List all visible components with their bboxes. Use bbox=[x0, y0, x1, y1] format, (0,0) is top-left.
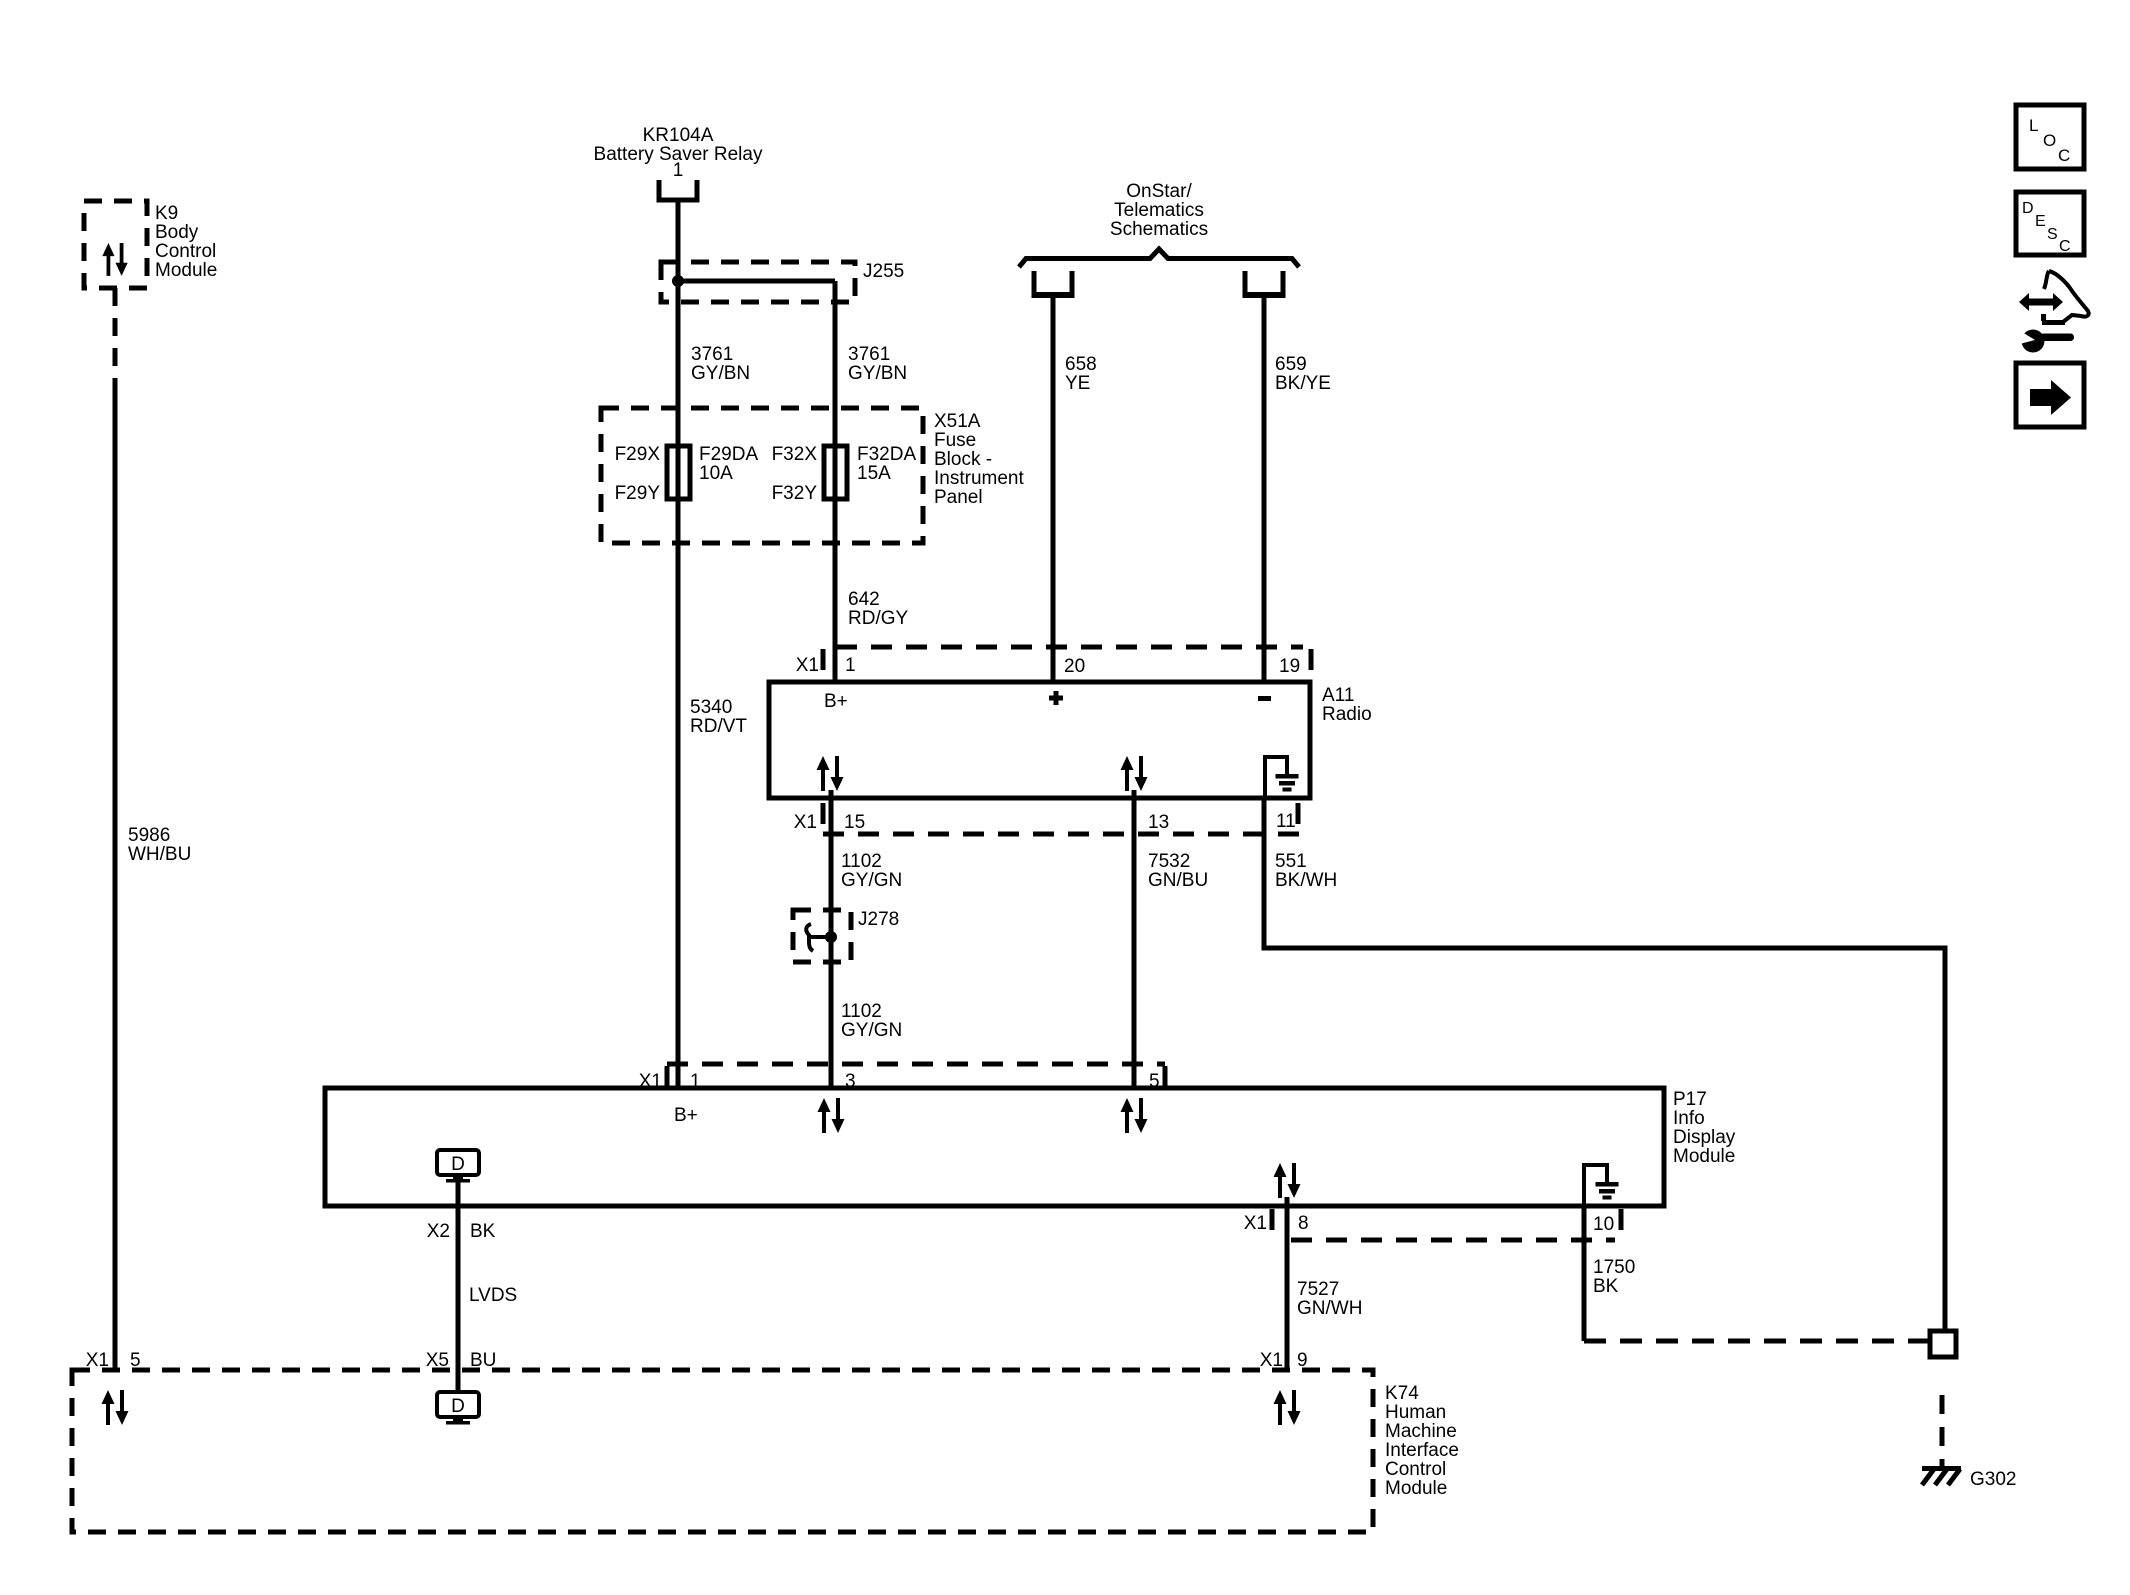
svg-text:WH/BU: WH/BU bbox=[128, 844, 191, 865]
wire 1102 GY/GN radio pin 15 to P17 pin 3 bbox=[831, 790, 902, 1088]
svg-text:1102: 1102 bbox=[841, 851, 882, 872]
fuse F29DA 10A bbox=[615, 444, 759, 504]
svg-text:13: 13 bbox=[1148, 812, 1169, 833]
svg-text:F32X: F32X bbox=[772, 444, 818, 465]
radio bidirectional arrows above pin 15 bbox=[817, 756, 844, 791]
svg-text:Radio: Radio bbox=[1322, 704, 1372, 725]
wire 642 RD/GY label bbox=[848, 589, 909, 629]
svg-text:B+: B+ bbox=[674, 1105, 698, 1126]
svg-text:Module: Module bbox=[1385, 1478, 1447, 1499]
svg-text:GY/BN: GY/BN bbox=[691, 363, 750, 384]
svg-text:658: 658 bbox=[1065, 354, 1097, 375]
P17 bidirectional arrows below pin 3 bbox=[818, 1098, 845, 1133]
svg-text:10A: 10A bbox=[699, 463, 733, 484]
svg-text:J278: J278 bbox=[858, 909, 899, 930]
svg-text:F29X: F29X bbox=[615, 444, 661, 465]
P17 display output D icon bbox=[437, 1150, 479, 1183]
nav icon schematic navigation (double arrow, outline, wrench) bbox=[2016, 271, 2089, 353]
svg-text:KR104A: KR104A bbox=[643, 125, 714, 146]
svg-text:5340: 5340 bbox=[690, 697, 732, 718]
svg-text:642: 642 bbox=[848, 589, 880, 610]
svg-text:F32DA: F32DA bbox=[857, 444, 916, 465]
svg-text:K74: K74 bbox=[1385, 1383, 1419, 1404]
svg-text:Info: Info bbox=[1673, 1108, 1705, 1129]
brace over OnStar wires bbox=[1019, 249, 1299, 267]
svg-text:BK/WH: BK/WH bbox=[1275, 870, 1337, 891]
svg-text:GN/BU: GN/BU bbox=[1148, 870, 1208, 891]
radio A11 connector X1 top strip bbox=[796, 647, 1311, 679]
wire 658 YE to radio pin 20 bbox=[1053, 295, 1097, 682]
svg-text:D: D bbox=[2022, 200, 2034, 217]
wire 5986 WH/BU from K9 to K74 bbox=[115, 288, 191, 1370]
module K74 Human Machine Interface Control Module (dashed box) bbox=[72, 1370, 1459, 1532]
svg-text:Control: Control bbox=[155, 241, 216, 262]
wire 551 BK/WH radio pin 11 to terminal bbox=[1264, 796, 1945, 1331]
OnStar/Telematics Schematics heading bbox=[1110, 181, 1208, 240]
nav icon LOC bbox=[2016, 105, 2084, 169]
svg-text:1: 1 bbox=[845, 655, 856, 676]
svg-text:Display: Display bbox=[1673, 1127, 1736, 1148]
P17 bidirectional arrows above pin 8 bbox=[1274, 1163, 1301, 1198]
svg-text:Instrument: Instrument bbox=[934, 468, 1024, 489]
wire 3761 GY/BN from relay down through fuse F29 to P17 pin 1 bbox=[678, 200, 750, 1088]
svg-text:BK: BK bbox=[470, 1221, 496, 1242]
wire 5340 RD/VT label bbox=[690, 697, 747, 737]
svg-text:OnStar/: OnStar/ bbox=[1126, 181, 1192, 202]
radio + terminal label bbox=[1049, 691, 1063, 705]
wire 1750 BK P17 pin 10 to terminal bbox=[1584, 1206, 1930, 1341]
svg-text:X2: X2 bbox=[427, 1221, 450, 1242]
svg-text:L: L bbox=[2029, 116, 2038, 135]
svg-text:11: 11 bbox=[1276, 811, 1296, 832]
wire 7532 GN/BU radio pin 13 to P17 pin 5 bbox=[1134, 790, 1208, 1088]
svg-text:C: C bbox=[2059, 238, 2071, 255]
svg-text:X1: X1 bbox=[796, 655, 819, 676]
fuse block X51A (dashed box) bbox=[601, 408, 1024, 543]
svg-text:7532: 7532 bbox=[1148, 851, 1190, 872]
svg-text:GY/GN: GY/GN bbox=[841, 870, 902, 891]
svg-text:LVDS: LVDS bbox=[469, 1285, 517, 1306]
radio internal ground symbol bbox=[1265, 757, 1299, 798]
connector terminal 659 bbox=[1245, 271, 1283, 295]
svg-text:Body: Body bbox=[155, 222, 199, 243]
wire to ground G302 (dashed) bbox=[1940, 1395, 1945, 1466]
svg-text:B+: B+ bbox=[824, 691, 848, 712]
svg-text:S: S bbox=[2047, 226, 2058, 243]
svg-text:Module: Module bbox=[155, 260, 217, 281]
K74 display input D icon bbox=[437, 1392, 479, 1425]
splice J278 (dashed box) bbox=[793, 909, 899, 962]
svg-text:RD/VT: RD/VT bbox=[690, 716, 747, 737]
svg-text:O: O bbox=[2043, 131, 2056, 150]
svg-text:Telematics: Telematics bbox=[1114, 200, 1204, 221]
svg-text:Panel: Panel bbox=[934, 487, 983, 508]
wire LVDS X2 BK from P17 to K74 X5 BU bbox=[426, 1182, 517, 1392]
svg-text:A11: A11 bbox=[1322, 685, 1354, 706]
module P17 Info Display Module (solid box) bbox=[325, 1088, 1736, 1206]
K74 pin 5 label bbox=[86, 1350, 141, 1371]
svg-text:RD/GY: RD/GY bbox=[848, 608, 909, 629]
svg-text:X1: X1 bbox=[794, 812, 817, 833]
P17 connector X1 bottom strip bbox=[1244, 1209, 1621, 1240]
svg-text:10: 10 bbox=[1593, 1214, 1614, 1235]
svg-text:Module: Module bbox=[1673, 1146, 1735, 1167]
svg-text:Block -: Block - bbox=[934, 449, 992, 470]
svg-text:8: 8 bbox=[1298, 1213, 1309, 1234]
radio connector X1 bottom strip bbox=[794, 803, 1303, 834]
P17 connector X1 top strip bbox=[639, 1064, 1165, 1092]
svg-text:E: E bbox=[2035, 213, 2046, 230]
P17 internal ground symbol bbox=[1584, 1165, 1619, 1206]
module A11 Radio (solid box) bbox=[769, 682, 1372, 798]
svg-text:5986: 5986 bbox=[128, 825, 170, 846]
svg-text:3761: 3761 bbox=[691, 344, 733, 365]
svg-text:F29Y: F29Y bbox=[615, 483, 661, 504]
J255 bus wire and junction dot bbox=[672, 275, 835, 287]
svg-text:BK/YE: BK/YE bbox=[1275, 373, 1331, 394]
nav icon next arrow bbox=[2016, 363, 2084, 427]
svg-text:GN/WH: GN/WH bbox=[1297, 1298, 1362, 1319]
svg-text:X1: X1 bbox=[1244, 1213, 1267, 1234]
svg-text:7527: 7527 bbox=[1297, 1279, 1339, 1300]
svg-text:GY/GN: GY/GN bbox=[841, 1020, 902, 1041]
svg-text:15A: 15A bbox=[857, 463, 891, 484]
K9 bidirectional arrows bbox=[102, 243, 127, 276]
svg-text:Fuse: Fuse bbox=[934, 430, 976, 451]
svg-text:K9: K9 bbox=[155, 203, 178, 224]
svg-text:Interface: Interface bbox=[1385, 1440, 1459, 1461]
svg-text:659: 659 bbox=[1275, 354, 1307, 375]
svg-text:551: 551 bbox=[1275, 851, 1307, 872]
ground G302 chassis symbol bbox=[1922, 1466, 2016, 1490]
splice J255 (dashed box) bbox=[661, 261, 904, 302]
svg-text:1102: 1102 bbox=[841, 1001, 882, 1022]
relay KR104A Battery Saver Relay bbox=[594, 125, 763, 181]
wire 7527 GN/WH P17 pin 8 to K74 pin 9 bbox=[1287, 1197, 1362, 1370]
svg-text:15: 15 bbox=[844, 812, 865, 833]
svg-text:F32Y: F32Y bbox=[772, 483, 818, 504]
svg-text:1: 1 bbox=[673, 160, 684, 181]
svg-text:J255: J255 bbox=[863, 261, 904, 282]
fuse F32DA 15A bbox=[772, 444, 917, 504]
svg-text:20: 20 bbox=[1064, 656, 1085, 677]
K74 pin 9 label bbox=[1260, 1350, 1308, 1371]
svg-text:Schematics: Schematics bbox=[1110, 219, 1208, 240]
svg-text:BK: BK bbox=[1593, 1276, 1619, 1297]
connector terminal 658 bbox=[1034, 271, 1072, 295]
svg-text:1750: 1750 bbox=[1593, 1257, 1635, 1278]
svg-text:Machine: Machine bbox=[1385, 1421, 1457, 1442]
svg-text:GY/BN: GY/BN bbox=[848, 363, 907, 384]
svg-text:Control: Control bbox=[1385, 1459, 1446, 1480]
P17 bidirectional arrows below pin 5 bbox=[1121, 1098, 1148, 1133]
svg-text:3761: 3761 bbox=[848, 344, 890, 365]
J278 splice symbol and junction dot bbox=[806, 924, 837, 951]
svg-text:F29DA: F29DA bbox=[699, 444, 758, 465]
svg-text:P17: P17 bbox=[1673, 1089, 1707, 1110]
svg-text:YE: YE bbox=[1065, 373, 1090, 394]
radio bidirectional arrows above pin 13 bbox=[1121, 756, 1148, 791]
svg-text:C: C bbox=[2058, 146, 2070, 165]
terminal junction square bbox=[1930, 1331, 1956, 1357]
svg-text:G302: G302 bbox=[1970, 1469, 2016, 1490]
svg-text:X51A: X51A bbox=[934, 411, 981, 432]
K74 bidirectional arrows below pin 9 bbox=[1274, 1390, 1301, 1425]
connector terminal of KR104A pin 1 bbox=[659, 180, 697, 200]
wire 659 BK/YE to radio pin 19 bbox=[1264, 295, 1331, 682]
svg-text:19: 19 bbox=[1279, 656, 1300, 677]
nav icon DESC bbox=[2016, 192, 2084, 255]
module K9 Body Control Module (dashed box) bbox=[84, 201, 217, 288]
wire 3761 GY/BN right branch from J255 to radio pin 1 bbox=[835, 281, 907, 682]
radio - terminal label bbox=[1258, 696, 1271, 701]
svg-text:Human: Human bbox=[1385, 1402, 1446, 1423]
K74 bidirectional arrows below pin 5 bbox=[102, 1390, 129, 1425]
